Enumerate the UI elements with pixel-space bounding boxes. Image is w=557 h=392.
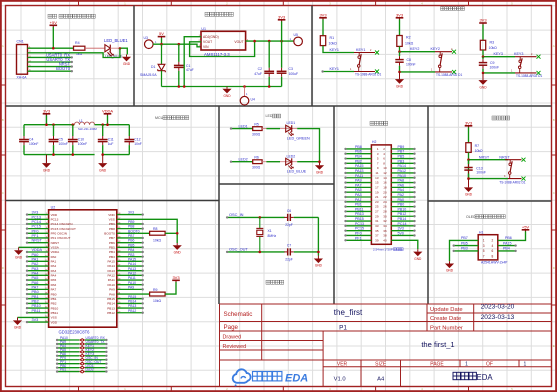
wire U1 VOUT-left under box: [190, 41, 255, 56]
svg-text:PB6: PB6: [109, 241, 115, 245]
svg-text:31: 31: [375, 219, 379, 223]
svg-text:PA8: PA8: [398, 179, 405, 183]
ground GND (section A): [122, 55, 131, 67]
svg-text:VDDA: VDDA: [51, 250, 61, 254]
svg-text:PB10: PB10: [398, 207, 407, 211]
svg-text:C8: C8: [407, 58, 412, 62]
svg-text:PB3: PB3: [461, 247, 468, 251]
junction C1 top: [178, 43, 181, 46]
wire U2 left stub NRST: [27, 242, 49, 244]
svg-text:PA1: PA1: [32, 257, 39, 261]
junction LED/GND loop: [119, 47, 122, 50]
svg-text:14: 14: [383, 176, 387, 180]
wire R6 to LED2: [262, 161, 297, 163]
resistor R5: [253, 127, 262, 131]
svg-text:30: 30: [383, 214, 387, 218]
resistor R8: [150, 231, 166, 235]
svg-text:R2: R2: [406, 36, 411, 40]
svg-text:CN1: CN1: [17, 40, 24, 44]
svg-text:40: 40: [383, 238, 387, 242]
svg-text:PA3: PA3: [355, 193, 362, 197]
svg-text:PB10: PB10: [32, 304, 41, 308]
wire U2 left stub PA7: [27, 288, 49, 290]
svg-text:OF: OF: [486, 362, 493, 368]
svg-text:PA12: PA12: [107, 274, 115, 278]
svg-text:VIN: VIN: [203, 45, 209, 49]
net tie PF0 to OSC_IN: [57, 359, 79, 361]
svg-text:LED_GREEN: LED_GREEN: [287, 137, 310, 141]
svg-text:PB1: PB1: [355, 203, 362, 207]
svg-text:PB5: PB5: [109, 246, 115, 250]
svg-text:D1: D1: [151, 65, 155, 69]
wire PA8 to R9: [117, 293, 150, 295]
svg-text:PC15 OSC32OUT: PC15 OSC32OUT: [51, 227, 76, 231]
title block grid: [220, 304, 552, 387]
svg-text:PB5: PB5: [128, 243, 135, 247]
svg-text:1: 1: [524, 361, 527, 367]
svg-text:2.54mm 2*20P: 2.54mm 2*20P: [373, 248, 393, 252]
svg-text:PB6: PB6: [128, 239, 135, 243]
svg-text:SLF-221-100M: SLF-221-100M: [78, 127, 97, 131]
section title: 晶振电路: [266, 280, 284, 284]
no-connect X marks (reset): [522, 158, 526, 162]
svg-text:3V3: 3V3: [32, 211, 39, 215]
wire U2 left stub PB11: [27, 312, 49, 314]
svg-text:KEY3: KEY3: [494, 52, 503, 56]
power 3V3 (R9): [172, 275, 180, 282]
wire U2 right stub PA12: [117, 274, 143, 276]
svg-text:PA15: PA15: [503, 241, 512, 245]
test point U4: [244, 87, 246, 97]
svg-text:PA8: PA8: [109, 292, 115, 296]
wire CN1 pin6 stub / net BOOT0: [28, 70, 72, 72]
svg-text:PB7: PB7: [398, 150, 405, 154]
svg-text:PA5: PA5: [51, 278, 57, 282]
power +5V (section B): [158, 31, 166, 38]
wire U2 right stub PB4: [117, 251, 143, 253]
svg-text:PA7: PA7: [32, 285, 39, 289]
svg-text:B: B: [2, 118, 4, 122]
svg-text:PA4: PA4: [32, 271, 39, 275]
capacitor C9: [479, 57, 487, 73]
svg-text:PB9: PB9: [398, 145, 405, 149]
svg-text:KEY1: KEY1: [356, 48, 365, 52]
svg-text:TS-1088-AR02 D1: TS-1088-AR02 D1: [499, 180, 525, 184]
svg-text:PAGE: PAGE: [430, 362, 444, 368]
svg-text:PB0: PB0: [398, 203, 405, 207]
wire NRST top: [468, 152, 470, 178]
capacitor C8: [395, 52, 403, 72]
ground GND (KEY2): [395, 72, 404, 88]
wire U2 right stub PB9: [117, 223, 143, 225]
H2 pin 29 wire: [346, 215, 372, 217]
H2 pin 37 wire: [346, 234, 372, 236]
ground GND (LED): [315, 162, 324, 175]
capacitor C13: [464, 160, 472, 179]
wire U2 left stub PC13: [27, 218, 49, 220]
H2 pin 4 wire: [391, 153, 414, 155]
svg-text:PA6: PA6: [32, 281, 39, 285]
svg-text:3V3: 3V3: [43, 108, 51, 113]
svg-text:MCU: MCU: [155, 116, 164, 120]
svg-text:PB7: PB7: [128, 234, 135, 238]
svg-text:PB9: PB9: [128, 220, 135, 224]
H2 pin 33 wire: [346, 225, 372, 227]
wire C7 to corner: [294, 251, 319, 253]
svg-text:38: 38: [383, 234, 387, 238]
svg-text:PA10: PA10: [128, 281, 136, 285]
wire U2 left stub PA0: [27, 256, 49, 258]
svg-text:Schematic: Schematic: [224, 311, 253, 318]
svg-text:KEY2: KEY2: [410, 47, 419, 51]
svg-text:PB0: PB0: [32, 290, 39, 294]
svg-text:R1: R1: [330, 36, 335, 40]
svg-text:P1: P1: [339, 325, 347, 332]
svg-text:PB11: PB11: [51, 311, 59, 315]
svg-text:PA4: PA4: [398, 188, 405, 192]
ground GND (H2): [413, 249, 422, 260]
svg-text:PB15: PB15: [107, 297, 115, 301]
svg-text:10kΩ: 10kΩ: [329, 42, 338, 46]
H2 pin 17 wire: [346, 186, 372, 188]
svg-text:Page: Page: [224, 324, 239, 331]
svg-text:LED_BLUE: LED_BLUE: [287, 170, 307, 174]
H2 pin 36 wire: [391, 230, 414, 232]
ground GND (section B): [222, 87, 231, 99]
svg-text:PA2: PA2: [32, 262, 39, 266]
svg-text:PC14: PC14: [32, 220, 42, 224]
wire U2 left stub PA6: [27, 284, 49, 286]
wire U2 left stub PA5: [27, 279, 49, 281]
svg-text:PB5: PB5: [461, 241, 468, 245]
wire VSS right to GND: [117, 219, 177, 243]
svg-text:27: 27: [375, 210, 379, 214]
svg-text:8MHz: 8MHz: [268, 234, 277, 238]
LED LED2: [286, 158, 294, 169]
svg-text:GND: GND: [396, 84, 404, 88]
H2 pin 7 wire: [346, 162, 372, 164]
svg-text:4: 4: [492, 244, 494, 248]
svg-text:A2541HWV-2x4P: A2541HWV-2x4P: [481, 261, 508, 265]
svg-text:KEY3: KEY3: [514, 52, 523, 56]
H2 pin 40 wire to GND: [391, 240, 418, 249]
svg-text:KEY2: KEY2: [431, 47, 440, 51]
svg-text:11: 11: [375, 171, 378, 175]
svg-text:6: 6: [492, 249, 494, 253]
power VDDA: [102, 108, 113, 115]
svg-text:100uF: 100uF: [289, 72, 299, 76]
svg-text:ADJ(GND): ADJ(GND): [203, 35, 219, 39]
svg-text:32: 32: [383, 219, 387, 223]
ground GND (reset): [464, 179, 473, 197]
svg-text:VOUT: VOUT: [203, 40, 212, 44]
wire U2 right stub PA14: [117, 265, 143, 267]
H2 pin 32 wire: [391, 220, 414, 222]
svg-text:PA5: PA5: [32, 276, 39, 280]
net tie PF1 to OSC_OUT: [57, 363, 79, 365]
svg-text:U2: U2: [51, 205, 56, 209]
svg-text:15: 15: [375, 181, 379, 185]
svg-text:LED1: LED1: [239, 124, 248, 128]
svg-text:KEY1: KEY1: [330, 48, 339, 52]
switch reset TS-1088: [505, 160, 522, 179]
ground GND (BOOT0): [173, 243, 182, 255]
H2 pin 31 wire: [346, 220, 372, 222]
svg-text:VER: VER: [337, 362, 348, 368]
svg-text:PB3: PB3: [128, 253, 135, 257]
wire U2 right stub 3V3: [117, 214, 143, 216]
svg-text:E: E: [553, 344, 555, 348]
switch KEY3 TS-1088: [515, 57, 537, 73]
svg-text:EDA: EDA: [285, 372, 308, 384]
svg-text:PA11: PA11: [108, 278, 115, 282]
svg-text:U5: U5: [294, 33, 298, 37]
svg-text:PA4: PA4: [51, 274, 57, 278]
svg-text:PA11: PA11: [128, 276, 136, 280]
svg-text:BOOT0: BOOT0: [104, 231, 115, 235]
wire H1 pin5: [454, 250, 479, 252]
svg-text:10: 10: [383, 166, 387, 170]
svg-text:100nF: 100nF: [406, 62, 416, 66]
svg-text:PA0: PA0: [32, 253, 39, 257]
svg-text:PA6: PA6: [51, 283, 57, 287]
wire U2 left stub 3V3: [27, 321, 49, 323]
wire +5V to H1 pin2: [498, 231, 526, 240]
svg-text:PB1: PB1: [32, 295, 39, 299]
svg-text:10kΩ: 10kΩ: [153, 238, 161, 242]
wire R5 to LED1: [262, 128, 297, 130]
wire U2 right stub PA11: [117, 279, 143, 281]
resistor R3: [482, 25, 484, 41]
svg-text:PA3: PA3: [32, 267, 39, 271]
svg-text:300Ω: 300Ω: [252, 166, 261, 170]
ground GND (filter right): [98, 155, 107, 173]
svg-text:PB6: PB6: [355, 150, 362, 154]
svg-text:H2: H2: [372, 140, 376, 144]
title block brand text (vector cjk): [453, 372, 476, 379]
wire KEY2 bottom: [400, 71, 436, 73]
ground GND (crystal): [314, 256, 323, 268]
svg-text:1: 1: [465, 361, 468, 367]
svg-text:VSSA: VSSA: [51, 246, 60, 250]
svg-text:R3: R3: [490, 41, 495, 45]
svg-text:PA14: PA14: [128, 262, 136, 266]
wire U2 right stub PB14: [117, 302, 143, 304]
svg-text:47uF: 47uF: [186, 68, 194, 72]
svg-text:LED2: LED2: [287, 154, 296, 158]
ground GND (filter left): [42, 155, 51, 173]
wire U2 right stub PB3: [117, 256, 143, 258]
svg-text:3V3: 3V3: [172, 275, 180, 280]
svg-text:23: 23: [375, 200, 379, 204]
svg-text:VDDA: VDDA: [102, 108, 113, 113]
svg-text:KEY1: KEY1: [330, 67, 339, 71]
svg-text:PB4: PB4: [109, 250, 115, 254]
svg-text:2023-03-20: 2023-03-20: [481, 304, 515, 311]
svg-text:5V: 5V: [159, 31, 164, 36]
wire U2 right stub PB5: [117, 246, 143, 248]
svg-text:PB0: PB0: [51, 292, 57, 296]
H2 pin 16 wire: [391, 182, 414, 184]
svg-text:OSC_OUT: OSC_OUT: [229, 246, 248, 251]
svg-text:PA10: PA10: [398, 174, 407, 178]
svg-text:PA11: PA11: [355, 174, 363, 178]
power 3V3 (key KEY1): [319, 12, 327, 19]
wire H1 pin1 to GND: [450, 240, 479, 261]
svg-text:7: 7: [483, 254, 485, 258]
svg-text:13: 13: [375, 176, 379, 180]
svg-text:20: 20: [383, 190, 387, 194]
svg-text:TS-1088-AR02 D1: TS-1088-AR02 D1: [436, 73, 462, 77]
svg-text:PB12: PB12: [398, 212, 407, 216]
svg-text:37: 37: [375, 234, 379, 238]
svg-text:PA0: PA0: [398, 198, 405, 202]
wire U2 left stub 3V3: [27, 214, 49, 216]
svg-text:R7: R7: [475, 144, 480, 148]
wire U2 left stub VDDA: [27, 251, 49, 253]
wire KEY1 bottom stub: [323, 71, 354, 73]
wire KEY3 top: [483, 50, 515, 57]
power 3V3 (filter): [43, 108, 51, 115]
H2 pin 12 wire: [391, 172, 414, 174]
svg-text:LED_BLUE1: LED_BLUE1: [104, 38, 128, 43]
svg-text:BOOT0: BOOT0: [128, 229, 140, 233]
svg-text:2: 2: [492, 239, 494, 243]
wire U2 right stub PA9: [117, 288, 143, 290]
svg-text:3V3: 3V3: [128, 211, 134, 215]
capacitor C10: [68, 125, 78, 155]
switch KEY1 TS-1088: [354, 53, 375, 72]
H2 pin 8 wire: [391, 162, 414, 164]
wire U2 left stub PB1: [27, 298, 49, 300]
svg-text:GND: GND: [99, 168, 107, 172]
net tie PA4 to KEY1: [57, 347, 79, 349]
svg-text:LED: LED: [266, 114, 273, 118]
svg-text:PA12: PA12: [128, 271, 136, 275]
svg-text:35: 35: [375, 229, 379, 233]
test point U3: [145, 40, 154, 49]
section title: 下载串口电路: [48, 14, 95, 18]
svg-text:R8: R8: [153, 227, 158, 231]
ground GND (OLED): [445, 261, 454, 273]
svg-text:PB14: PB14: [107, 302, 115, 306]
net tie PA10 to USART0_RX: [57, 339, 79, 341]
svg-text:3V3: 3V3: [396, 12, 404, 17]
svg-text:18: 18: [383, 185, 387, 189]
wire CN1 pin4 stub / net USART0_TX: [28, 61, 72, 63]
svg-text:PA1: PA1: [51, 260, 57, 264]
wire BOOT0 to R8: [117, 232, 150, 234]
section title: 独立按键电路: [441, 7, 465, 11]
capacitor C7: [284, 248, 294, 255]
svg-text:GND: GND: [43, 168, 51, 172]
wire U2 right stub PA13: [117, 270, 143, 272]
net tie PA6 to KEY3: [57, 355, 79, 357]
regulator U1 AMS1117-3.3: [201, 31, 246, 50]
H2 pin 18 wire: [391, 186, 414, 188]
svg-text:PB1: PB1: [60, 368, 66, 372]
svg-text:XH-6A: XH-6A: [17, 75, 28, 79]
wire gnd rail left (filter): [24, 154, 95, 156]
H2 pin 9 wire: [346, 167, 372, 169]
svg-text:VDD: VDD: [108, 213, 115, 217]
section title: 电源降压电路: [205, 12, 233, 16]
svg-text:PB14: PB14: [398, 217, 407, 221]
junction 5V riser: [160, 43, 163, 46]
wire 5V rail: [153, 44, 201, 47]
svg-text:PA13: PA13: [355, 169, 364, 173]
wire R4 to LED: [85, 47, 105, 49]
net tie PB1 to LED2: [57, 371, 79, 373]
wire U2 left stub PA4: [27, 274, 49, 276]
svg-text:PC14 OSC32IN: PC14 OSC32IN: [51, 222, 73, 226]
svg-text:39: 39: [375, 238, 379, 242]
svg-text:PB2: PB2: [32, 300, 39, 304]
wire H1 pin4: [498, 245, 516, 247]
LED LED1: [286, 125, 294, 136]
wire U2 right stub PB6: [117, 242, 143, 244]
svg-text:PA6: PA6: [398, 183, 405, 187]
H2 pin 28 wire: [391, 210, 414, 212]
ground GND (KEY3): [478, 73, 487, 89]
logo 嘉立创EDA (vector): [233, 369, 251, 386]
svg-text:GND: GND: [414, 257, 422, 261]
H2 pin 22 wire: [391, 196, 414, 198]
svg-text:GND: GND: [316, 170, 324, 174]
svg-text:PB15: PB15: [128, 295, 136, 299]
wire U2 left stub PF1: [27, 237, 49, 239]
wire U2 left stub PB10: [27, 307, 49, 309]
svg-text:300Ω: 300Ω: [252, 132, 261, 136]
svg-text:17: 17: [375, 185, 379, 189]
wire U2 right stub PA10: [117, 284, 143, 286]
wire U2 left stub PB0: [27, 293, 49, 295]
svg-text:PB11: PB11: [355, 207, 364, 211]
svg-text:TS-1088-AR02 D1: TS-1088-AR02 D1: [355, 73, 381, 77]
svg-text:PB6: PB6: [505, 236, 512, 240]
capacitor C3: [277, 41, 287, 86]
svg-text:3: 3: [483, 244, 485, 248]
test point U5: [294, 37, 303, 46]
svg-text:PB12: PB12: [128, 309, 136, 313]
svg-text:PC13: PC13: [355, 222, 364, 226]
svg-text:PA14: PA14: [107, 264, 115, 268]
svg-text:100nF: 100nF: [476, 171, 486, 175]
power +5V: [50, 20, 58, 27]
svg-text:PA9: PA9: [128, 285, 134, 289]
svg-text:C3: C3: [289, 67, 293, 71]
svg-text:VSS: VSS: [51, 316, 57, 320]
svg-text:GD32E230C8T6: GD32E230C8T6: [59, 329, 91, 334]
svg-text:PB13: PB13: [107, 306, 115, 310]
H2 pin 1 wire: [346, 148, 372, 150]
wire U2 left stub PB2: [27, 302, 49, 304]
net tie PA5 to KEY2: [57, 351, 79, 353]
resistor R7: [468, 127, 470, 142]
resistor R6: [253, 160, 262, 164]
wire CN1 pin3 stub / net USART0_RX: [28, 56, 72, 58]
svg-text:VSS: VSS: [109, 217, 115, 221]
wire 3V3 top rail: [24, 124, 74, 126]
svg-text:C9: C9: [490, 61, 495, 65]
resistor R2: [399, 19, 401, 35]
svg-text:Update Date: Update Date: [430, 307, 463, 313]
wire net OSC_OUT: [227, 251, 285, 253]
svg-text:PA9: PA9: [109, 288, 115, 292]
power 3V3 (section B): [278, 14, 286, 21]
ground GND (VSSA): [14, 247, 23, 259]
wire LED cathodes to GND: [297, 129, 319, 162]
